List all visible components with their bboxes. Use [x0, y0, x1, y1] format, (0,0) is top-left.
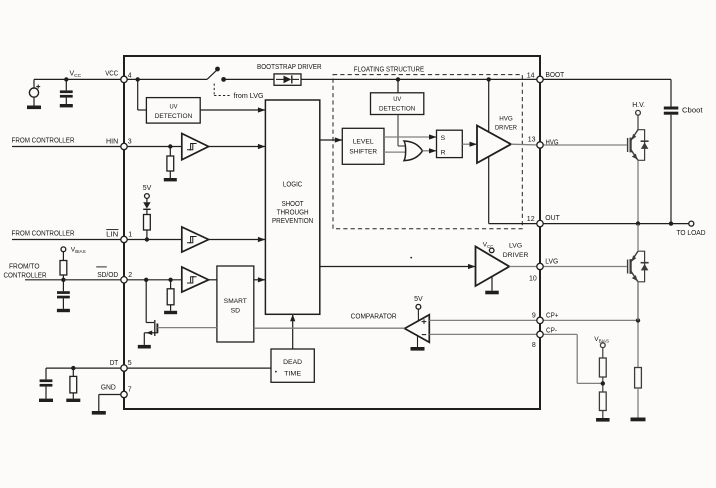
svg-text:4: 4 [128, 73, 132, 80]
svg-text:FROM/TO: FROM/TO [9, 264, 40, 271]
svg-text:from LVG: from LVG [234, 93, 264, 100]
svg-text:CP+: CP+ [546, 312, 559, 319]
svg-text:5V: 5V [143, 185, 152, 192]
svg-text:HVG: HVG [499, 115, 513, 122]
svg-text:UV: UV [393, 96, 401, 103]
svg-text:SHIFTER: SHIFTER [349, 149, 377, 156]
svg-text:UV: UV [170, 104, 178, 111]
svg-text:8: 8 [532, 342, 536, 349]
svg-text:5V: 5V [414, 296, 423, 303]
svg-text:9: 9 [532, 312, 536, 319]
svg-text:HIN: HIN [106, 138, 118, 145]
svg-text:PREVENTION: PREVENTION [272, 218, 313, 225]
svg-text:TO LOAD: TO LOAD [677, 230, 706, 237]
svg-text:5: 5 [128, 360, 132, 367]
svg-text:GND: GND [101, 384, 116, 391]
svg-text:DT: DT [110, 360, 119, 367]
svg-text:10: 10 [529, 276, 537, 283]
svg-text:DEAD: DEAD [283, 359, 302, 366]
svg-text:THROUGH: THROUGH [277, 209, 309, 216]
svg-text:VCC: VCC [105, 71, 118, 78]
svg-text:S: S [441, 135, 446, 142]
svg-text:1: 1 [128, 231, 132, 238]
svg-text:13: 13 [528, 137, 536, 144]
svg-text:14: 14 [527, 73, 535, 80]
svg-text:FLOATING STRUCTURE: FLOATING STRUCTURE [354, 66, 425, 73]
svg-text:COMPARATOR: COMPARATOR [351, 311, 397, 320]
svg-text:DRIVER: DRIVER [495, 125, 517, 132]
svg-text:TIME: TIME [284, 370, 301, 377]
svg-text:BOOT: BOOT [546, 72, 565, 79]
svg-text:CP-: CP- [546, 328, 558, 335]
svg-text:SD/OD: SD/OD [97, 272, 118, 279]
svg-text:CONTROLLER: CONTROLLER [4, 272, 47, 279]
svg-text:Cboot: Cboot [682, 108, 703, 115]
svg-text:FROM CONTROLLER: FROM CONTROLLER [12, 231, 75, 238]
svg-text:DETECTION: DETECTION [155, 113, 193, 120]
svg-text:LOGIC: LOGIC [283, 182, 303, 189]
svg-text:SHOOT: SHOOT [282, 201, 305, 208]
svg-text:LVG: LVG [509, 243, 522, 250]
svg-text:OUT: OUT [545, 215, 560, 222]
svg-text:LVG: LVG [545, 258, 558, 265]
svg-text:LEVEL: LEVEL [353, 139, 374, 146]
svg-text:FROM CONTROLLER: FROM CONTROLLER [12, 138, 75, 145]
svg-text:DETECTION: DETECTION [379, 105, 415, 112]
svg-text:7: 7 [128, 387, 132, 394]
svg-text:R: R [441, 149, 446, 156]
svg-text:SMART: SMART [224, 298, 247, 305]
svg-text:3: 3 [128, 138, 132, 145]
svg-text:12: 12 [527, 216, 535, 223]
svg-text:LIN: LIN [106, 231, 118, 238]
svg-text:BOOTSTRAP DRIVER: BOOTSTRAP DRIVER [257, 64, 322, 71]
svg-text:2: 2 [128, 272, 132, 279]
svg-text:DRIVER: DRIVER [503, 252, 529, 259]
svg-text:SD: SD [231, 308, 241, 315]
svg-text:H.V.: H.V. [632, 102, 645, 109]
